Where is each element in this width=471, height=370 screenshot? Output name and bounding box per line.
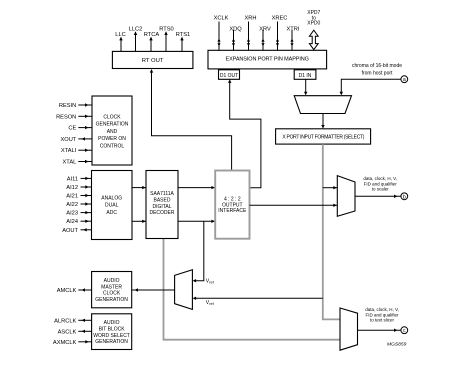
svg-text:XTRI: XTRI bbox=[287, 27, 300, 33]
block D1 IN bbox=[294, 70, 316, 80]
svg-text:to text slicer: to text slicer bbox=[370, 318, 395, 323]
svg-text:AI12: AI12 bbox=[66, 185, 78, 191]
label MGS859 bbox=[387, 342, 407, 348]
svg-text:EXPANSION PORT PIN MAPPING: EXPANSION PORT PIN MAPPING bbox=[226, 57, 309, 63]
svg-text:AUDIO: AUDIO bbox=[104, 320, 120, 326]
svg-text:XRV: XRV bbox=[259, 27, 271, 33]
svg-text:POWER ON: POWER ON bbox=[98, 136, 126, 142]
pin XCLK bbox=[214, 16, 229, 51]
svg-text:AUDIO: AUDIO bbox=[104, 278, 120, 284]
pin AI23 bbox=[66, 211, 91, 217]
svg-text:RTS0: RTS0 bbox=[159, 27, 173, 33]
svg-text:ADC: ADC bbox=[106, 210, 117, 216]
block SAA7111A BASED DIGITAL DECODER bbox=[146, 171, 178, 239]
pin XTALI bbox=[61, 148, 92, 154]
wire (gray) formatter output bus down to text-slicer mux bbox=[323, 144, 340, 319]
svg-text:XTAL: XTAL bbox=[62, 160, 76, 166]
pin AI24 bbox=[66, 219, 91, 225]
svg-text:XDQ: XDQ bbox=[229, 27, 242, 33]
pin RESON bbox=[56, 114, 92, 120]
svg-text:BASED: BASED bbox=[154, 198, 171, 204]
block RT OUT bbox=[112, 51, 192, 68]
wire ADC to decoder (luma) bbox=[132, 186, 146, 189]
svg-text:XREC: XREC bbox=[272, 16, 288, 22]
svg-text:BIT BLOCK: BIT BLOCK bbox=[99, 326, 126, 332]
pin XDQ bbox=[229, 27, 242, 51]
svg-text:AI21: AI21 bbox=[66, 194, 78, 200]
svg-text:DIGITAL: DIGITAL bbox=[152, 204, 171, 210]
svg-text:RTS1: RTS1 bbox=[176, 32, 190, 38]
block AUDIO MASTER CLOCK GENERATION bbox=[92, 272, 132, 308]
mux text-slicer output bbox=[340, 308, 358, 350]
svg-text:chroma of 16-bit mode: chroma of 16-bit mode bbox=[352, 63, 402, 69]
wire 4:2:2 output to scaler mux bbox=[250, 204, 338, 207]
wire x-port mux to formatter bbox=[321, 114, 324, 129]
svg-text:AMCLK: AMCLK bbox=[57, 288, 77, 294]
svg-text:XOUT: XOUT bbox=[60, 137, 76, 143]
svg-text:DECODER: DECODER bbox=[149, 210, 174, 216]
wire D1 OUT feed from 4:2:2 output interface bbox=[228, 79, 261, 187]
svg-text:Vref: Vref bbox=[206, 278, 215, 284]
pin XTAL bbox=[62, 160, 92, 166]
wire decoder to 4:2:2 interface (lower) with tap to audio mux bbox=[178, 220, 215, 283]
block EXPANSION PORT PIN MAPPING bbox=[208, 50, 327, 69]
svg-text:XCLK: XCLK bbox=[214, 16, 229, 22]
svg-text:D1 OUT: D1 OUT bbox=[220, 73, 238, 79]
svg-text:GENERATION: GENERATION bbox=[95, 297, 128, 303]
block D1 OUT bbox=[219, 70, 240, 80]
pin AI12 bbox=[66, 185, 91, 191]
pin ASCLK bbox=[58, 329, 92, 335]
pin LLC bbox=[115, 32, 125, 51]
svg-text:a: a bbox=[403, 77, 406, 83]
wire formatter bus stub to scaler mux bbox=[323, 186, 338, 189]
svg-text:CLOCK: CLOCK bbox=[103, 291, 121, 297]
wire (gray) SAA7111A decoder to text-slicer mux bbox=[164, 239, 340, 340]
svg-text:AI23: AI23 bbox=[66, 211, 78, 217]
svg-text:RT OUT: RT OUT bbox=[142, 58, 164, 64]
svg-text:AI24: AI24 bbox=[66, 219, 78, 225]
wire Vref (from decoder tap) label bbox=[206, 278, 215, 284]
svg-text:RESON: RESON bbox=[56, 114, 76, 120]
pin LLC2 bbox=[129, 27, 143, 52]
mux audio reference select bbox=[175, 270, 193, 310]
wire Vref (from gray bus) to audio mux bbox=[193, 297, 323, 307]
svg-text:INTERFACE: INTERFACE bbox=[218, 208, 247, 214]
pin ALRCLK bbox=[54, 318, 91, 324]
pin XRV bbox=[259, 27, 271, 51]
node b: data clock to scaler bbox=[355, 176, 408, 200]
svg-text:AI11: AI11 bbox=[67, 176, 78, 182]
node c: data clock to text slicer bbox=[358, 307, 408, 334]
mux scaler output bbox=[337, 176, 355, 217]
svg-text:WORD SELECT: WORD SELECT bbox=[93, 333, 130, 339]
svg-text:RTCA: RTCA bbox=[144, 32, 160, 38]
pin XOUT bbox=[60, 137, 92, 143]
svg-text:AI22: AI22 bbox=[66, 202, 78, 208]
pin RTS1 bbox=[176, 32, 190, 51]
svg-text:X PORT INPUT FORMATTER (SELECT: X PORT INPUT FORMATTER (SELECT) bbox=[282, 134, 364, 140]
pin CE bbox=[68, 126, 92, 132]
pin AI22 bbox=[66, 202, 91, 208]
wire chroma input to x-port mux bbox=[340, 79, 401, 95]
svg-text:DUAL: DUAL bbox=[105, 203, 119, 209]
svg-text:LLC: LLC bbox=[115, 32, 125, 38]
svg-text:RESIN: RESIN bbox=[59, 103, 76, 109]
svg-text:CE: CE bbox=[68, 126, 76, 132]
block CLOCK GENERATION AND POWER ON CONTROL bbox=[92, 96, 132, 165]
svg-text:ALRCLK: ALRCLK bbox=[54, 318, 76, 324]
svg-text:GENERATION: GENERATION bbox=[96, 122, 129, 128]
pin RESIN bbox=[59, 103, 92, 109]
svg-text:Vref: Vref bbox=[206, 300, 215, 306]
mux x-port input trapezoid bbox=[294, 96, 351, 114]
svg-text:AXMCLK: AXMCLK bbox=[53, 340, 77, 346]
pin AXMCLK bbox=[53, 340, 92, 346]
svg-text:from host port: from host port bbox=[362, 71, 393, 77]
pin AMCLK bbox=[57, 288, 92, 294]
block ANALOG DUAL ADC bbox=[92, 171, 133, 240]
pin XPD7 to XPD0 (bidirectional bus arrow) bbox=[307, 10, 320, 49]
block X PORT INPUT FORMATTER (SELECT) bbox=[276, 129, 371, 144]
pin AOUT bbox=[62, 228, 91, 234]
pin RTS0 bbox=[159, 27, 173, 52]
block AUDIO BIT BLOCK WORD SELECT GENERATION bbox=[92, 314, 132, 350]
svg-text:SAA7111A: SAA7111A bbox=[150, 191, 174, 197]
pin XTRI bbox=[287, 27, 300, 51]
svg-text:c: c bbox=[403, 328, 406, 334]
svg-text:XPD0: XPD0 bbox=[307, 21, 320, 27]
svg-text:LLC2: LLC2 bbox=[129, 27, 143, 33]
wire RT OUT feed from 4:2:2 output interface bbox=[150, 69, 232, 171]
svg-text:b: b bbox=[403, 194, 406, 200]
wire ADC to decoder (chroma) bbox=[132, 220, 146, 223]
svg-text:AND: AND bbox=[107, 129, 118, 135]
svg-text:MGS859: MGS859 bbox=[387, 342, 407, 348]
svg-text:MASTER: MASTER bbox=[101, 284, 122, 290]
svg-text:to scaler: to scaler bbox=[372, 186, 390, 191]
svg-text:XRH: XRH bbox=[244, 16, 256, 22]
svg-text:ANALOG: ANALOG bbox=[101, 195, 122, 201]
wire D1 IN to x-port mux bbox=[304, 79, 307, 95]
pin XREC bbox=[272, 16, 288, 51]
block 4:2:2 OUTPUT INTERFACE bbox=[215, 171, 249, 239]
svg-text:XTALI: XTALI bbox=[61, 148, 77, 154]
svg-text:CLOCK: CLOCK bbox=[103, 114, 121, 120]
svg-text:ASCLK: ASCLK bbox=[58, 329, 77, 335]
wire audio mux output to master clock generation bbox=[132, 288, 175, 291]
svg-text:CONTROL: CONTROL bbox=[100, 144, 125, 150]
svg-text:AOUT: AOUT bbox=[62, 228, 78, 234]
pin XRH bbox=[244, 16, 256, 51]
pin AI21 bbox=[66, 194, 91, 200]
svg-text:D1 IN: D1 IN bbox=[299, 73, 312, 79]
pin AI11 bbox=[67, 176, 92, 182]
pin RTCA bbox=[144, 32, 160, 51]
svg-text:GENERATION: GENERATION bbox=[95, 339, 128, 345]
wire decoder to 4:2:2 interface (upper) bbox=[178, 186, 215, 189]
node a: chroma of 16-bit mode from host port bbox=[352, 63, 408, 83]
